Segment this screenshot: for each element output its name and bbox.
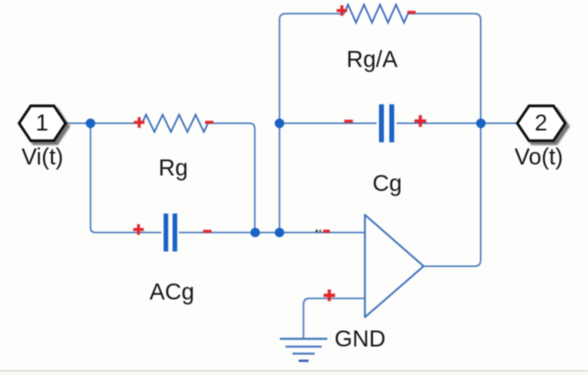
wire: bottom node row (ACg row) left segment [96, 232, 162, 234]
polarity - (op-amp inverting input) [323, 230, 330, 233]
junction node at input [86, 119, 96, 129]
svg-text:2: 2 [535, 109, 548, 135]
svg-text:Vi(t): Vi(t) [22, 143, 64, 169]
polarity - (resistor Rg/A right) [407, 11, 415, 14]
wire: resistor Rg output to corner down to bottom node row [208, 123, 255, 232]
junction node Cg row right (output) [476, 119, 486, 129]
polarity + (op-amp non-inverting input) [324, 290, 336, 302]
wire: resistor Rg/A to right vertical down to op-amp output [408, 14, 481, 267]
polarity + (resistor Rg left) [134, 117, 145, 128]
junction node Cg row left [275, 119, 285, 129]
svg-text:ACg: ACg [150, 279, 195, 305]
op-amp U1 triangle [365, 215, 424, 317]
wire: vertical from input node down to bottom row [91, 123, 96, 232]
wire: capacitor Cg right plate to output node and port 2 [397, 122, 518, 124]
ground symbol bars [280, 338, 327, 340]
svg-text:Rg/A: Rg/A [347, 46, 399, 72]
wire: op-amp non-inverting input to GND stem [304, 298, 365, 338]
bottom separator line [0, 370, 588, 371]
junction node bottom row (Rg branch) [250, 228, 260, 238]
polarity - (capacitor ACg right) [203, 230, 211, 233]
input port 1 hexagon [19, 106, 66, 141]
output port 2 hexagon [517, 106, 565, 141]
polarity + (capacitor ACg left) [133, 224, 144, 235]
svg-text:Rg: Rg [159, 155, 188, 181]
junction node bottom row (feedback branch) [275, 228, 285, 238]
resistor Rg (zigzag) [142, 115, 208, 132]
capacitor ACg plates [164, 214, 169, 252]
polarity + (capacitor Cg right) [414, 115, 426, 127]
capacitor Cg plates [379, 104, 384, 142]
resistor Rg/A (zigzag, top feedback) [344, 5, 408, 23]
svg-text:Cg: Cg [373, 170, 402, 196]
polarity - (resistor Rg right) [205, 121, 213, 124]
polarity + (resistor Rg/A left) [337, 5, 348, 16]
wire: input port to resistor Rg (row B left) [66, 122, 143, 124]
wire: feedback left vertical + top row to resistor Rg/A [280, 14, 345, 233]
tiny dark port mark at op-amp inverting input [316, 230, 322, 232]
svg-text:Vo(t): Vo(t) [515, 143, 564, 169]
svg-text:1: 1 [36, 109, 49, 135]
wire: bottom node row from capacitor ACg to op-amp inverting input [179, 232, 365, 234]
svg-text:GND: GND [335, 326, 386, 352]
wire: Cg row, node to capacitor Cg left plate [280, 122, 377, 124]
polarity - (capacitor Cg left) [344, 120, 353, 123]
